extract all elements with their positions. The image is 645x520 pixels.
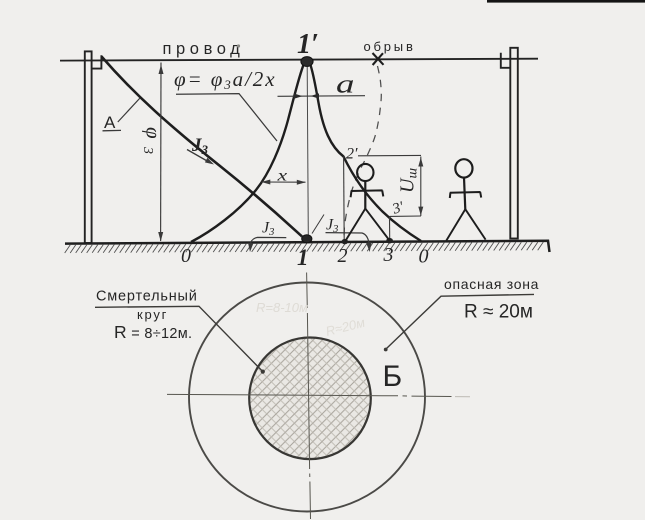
svg-text:a: a [336, 70, 354, 98]
wire (провод) horizontal line [60, 59, 538, 61]
inner deadly circle with crosshatch [249, 338, 371, 460]
stickman 1 body [364, 181, 366, 209]
potential curve left branch [191, 64, 304, 243]
svg-text:1: 1 [297, 245, 309, 270]
ground hatching [65, 242, 544, 253]
stickman 2 head [455, 159, 472, 177]
ink dot after провод [237, 44, 240, 47]
outer circle danger zone [189, 283, 425, 512]
svg-text:3: 3 [140, 146, 155, 154]
center line horizontal [167, 394, 452, 396]
left ground-current leader arrow [250, 237, 286, 245]
svg-text:x: x [276, 167, 287, 185]
contact dot at point 1 [302, 235, 312, 243]
svg-text:R=8-10м: R=8-10м [256, 300, 308, 315]
label phi3 rotated [142, 127, 166, 139]
stickman 2 arms [450, 192, 481, 198]
Ush dimension line [420, 157, 422, 217]
svg-text:0: 0 [419, 246, 429, 268]
svg-text:обрыв: обрыв [364, 39, 416, 54]
horizontal from 3prime [390, 215, 422, 217]
label Ush rotated [397, 168, 421, 193]
break X mark [373, 53, 384, 65]
stickman 2 legs [446, 209, 485, 240]
left pole insulator bracket [92, 55, 102, 68]
svg-text:2: 2 [338, 245, 348, 267]
dimension x with double arrow [262, 181, 306, 183]
underline + leader to inner circle [95, 306, 263, 371]
vertical 3-3prime [389, 217, 391, 240]
label x [276, 167, 287, 185]
svg-text:0: 0 [181, 245, 191, 267]
potential curve right branch [310, 64, 421, 242]
stickman 2 body [464, 178, 465, 210]
svg-text:опасная зона: опасная зона [444, 276, 539, 292]
horizontal from 2prime [358, 154, 421, 156]
insulator dot at 1prime [301, 57, 313, 67]
label a [336, 70, 354, 98]
svg-text:2′: 2′ [346, 146, 358, 163]
dashed fall trajectory arc [344, 66, 381, 236]
stickman 1 arms [351, 190, 384, 197]
formula underline + leader to curve [176, 94, 277, 141]
ground line [65, 241, 550, 252]
svg-text:R ≈ 20м: R ≈ 20м [464, 302, 533, 323]
svg-text:1′: 1′ [297, 29, 319, 60]
svg-text:круг: круг [137, 307, 168, 322]
svg-text:3: 3 [383, 244, 394, 266]
phi3 dimension vertical line with arrows [160, 63, 162, 242]
fallen wire curve A [102, 57, 303, 237]
right pole insulator bracket [501, 53, 511, 68]
right ground-current leader arrow [326, 233, 370, 243]
stickman 1 head [357, 164, 373, 181]
underline + leader to ring [386, 294, 534, 349]
svg-text:φ: φ [142, 127, 166, 139]
black scan bar top right [487, 0, 645, 3]
leader from dot 1 to right J3 [312, 215, 324, 234]
stickman 1 legs [345, 209, 389, 242]
faint erased pencil ghost diagonal [324, 315, 366, 339]
svg-text:Б: Б [383, 360, 403, 393]
axis line 1-1prime [307, 66, 308, 236]
left pole [85, 51, 92, 243]
dot at point 3 [386, 238, 393, 244]
right pole [510, 48, 518, 239]
vertical 2-2prime [343, 157, 346, 242]
dimension a line [278, 95, 366, 98]
svg-text:A: A [104, 113, 116, 132]
dot at point 2 [342, 239, 349, 244]
svg-text:провод: провод [163, 40, 245, 58]
svg-text:Смертельный: Смертельный [96, 289, 198, 305]
center line vertical [307, 273, 311, 520]
